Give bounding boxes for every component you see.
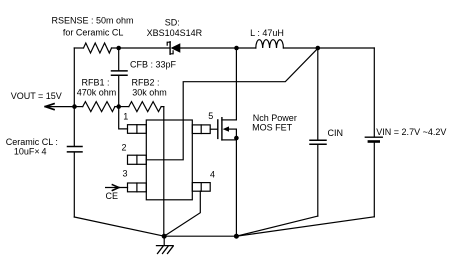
node VIN-top junction dot [316, 46, 321, 51]
svg-text:470k ohm: 470k ohm [77, 87, 117, 97]
svg-text:CFB : 33pF: CFB : 33pF [130, 59, 177, 69]
capacitor CFB [112, 48, 128, 107]
svg-text:RFB2 :: RFB2 : [131, 77, 159, 87]
wire left rail lower [73, 152, 75, 217]
node source junction dot [234, 136, 239, 141]
inductor L 47uH [256, 40, 284, 48]
svg-text:Ceramic CL :: Ceramic CL : [6, 137, 58, 147]
ground [157, 236, 174, 253]
resistor RSENSE [84, 43, 112, 53]
svg-text:RSENSE : 50m ohm: RSENSE : 50m ohm [51, 15, 133, 25]
wire between RSENSE and diode [112, 47, 170, 49]
svg-text:XBS104S14R: XBS104S14R [147, 28, 203, 38]
wire left rail diagonal to ground [74, 217, 164, 236]
arrow CE pointing right [112, 185, 119, 191]
wire pin 2 to switching node [146, 48, 317, 159]
svg-text:10uF× 4: 10uF× 4 [14, 147, 47, 157]
node FB-top junction dot [116, 46, 121, 51]
wire ground rail [164, 235, 236, 237]
svg-text:MOS FET: MOS FET [252, 123, 293, 133]
svg-text:2: 2 [121, 143, 126, 153]
battery VIN source [365, 137, 382, 217]
op-amp U1 IC body [146, 120, 192, 200]
wire inductor to top-right corner [283, 47, 374, 49]
svg-text:CIN: CIN [328, 128, 344, 138]
capacitor CIN [310, 48, 326, 216]
resistor RFB2 [119, 102, 164, 112]
resistor RFB1 [75, 102, 119, 112]
svg-text:Nch Power: Nch Power [253, 113, 297, 123]
svg-text:1: 1 [123, 112, 128, 122]
wire top rail left lead [74, 47, 83, 49]
wire VOUT arrow lead [45, 106, 74, 108]
wire RFB2 to ground through IC [163, 107, 165, 237]
wire CE lead [106, 187, 128, 189]
pin 2 [128, 155, 147, 164]
pin 1 [128, 125, 147, 134]
svg-text:L : 47uH: L : 47uH [250, 28, 284, 38]
node switching junction dot [234, 46, 239, 51]
wire pin 4 to ground [164, 191, 200, 236]
wire source to ground rail [235, 129, 237, 236]
svg-text:for Ceramic CL: for Ceramic CL [63, 27, 124, 37]
capacitor Ceramic CL [68, 147, 83, 152]
svg-text:RFB1 :: RFB1 : [81, 77, 109, 87]
wire drain to switching node [235, 48, 237, 120]
wire pin 5 to gate [210, 128, 217, 130]
svg-text:CE: CE [106, 191, 119, 201]
node ground-right junction dot [234, 234, 239, 239]
svg-text:3: 3 [122, 168, 127, 178]
wire VIN to ground [236, 217, 374, 236]
svg-text:VIN = 2.7V ~4.2V: VIN = 2.7V ~4.2V [376, 127, 446, 137]
svg-text:5: 5 [208, 111, 213, 121]
wire right rail [373, 48, 375, 137]
node FB junction dot [116, 104, 121, 109]
wire FB node to pin 1 [119, 107, 128, 129]
wire CIN to ground [236, 216, 317, 236]
svg-text:VOUT = 15V: VOUT = 15V [11, 91, 62, 101]
arrow VOUT pointing left [45, 104, 54, 110]
wire diode to inductor [180, 47, 256, 49]
node VOUT junction dot [72, 104, 77, 109]
node ground-left junction dot [162, 234, 167, 239]
pin 4 [192, 183, 210, 192]
transistor Q1 Nch Power MOS FET [218, 118, 237, 140]
pin 5 [192, 125, 210, 134]
svg-text:SD:: SD: [165, 18, 180, 28]
svg-text:30k ohm: 30k ohm [132, 87, 167, 97]
pin 3 [128, 183, 147, 192]
diode SD schottky XBS104S14R [167, 42, 180, 54]
svg-text:4: 4 [210, 170, 215, 180]
wire left rail upper [73, 48, 75, 146]
